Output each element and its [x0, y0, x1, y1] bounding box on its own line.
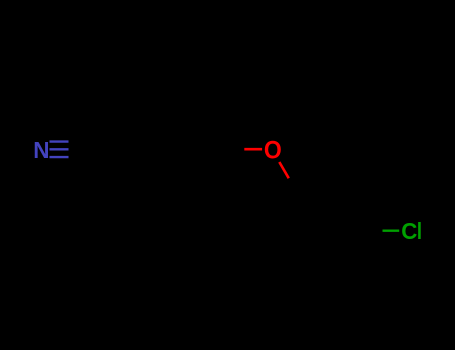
triple bond carbon-half (black, invisible) — [69, 142, 89, 158]
svg-text:O: O — [264, 137, 282, 165]
O to CH2 bond, oxygen half (red diagonal) — [279, 162, 289, 178]
nitrile carbon to ring bond (black, invisible) — [88, 148, 127, 151]
ring-to-O bond, oxygen half (red) — [244, 148, 262, 151]
ring-to-O bond, carbon half (black, invisible) — [227, 148, 244, 151]
CH2 to Cl bond, chlorine half (green) — [383, 229, 400, 231]
CH2 to Cl bond, carbon half (black, invisible) — [366, 229, 383, 232]
svg-text:l: l — [417, 219, 422, 244]
triple bond N-half (blue) — [50, 142, 69, 158]
O to CH2 bond, carbon half (black, invisible) — [289, 178, 299, 194]
oxygen atom label O — [264, 137, 282, 165]
svg-text:C: C — [401, 217, 417, 244]
chlorine atom label l of Cl — [417, 219, 422, 244]
nitrogen atom label N — [33, 137, 49, 163]
benzene ring (black bonds, invisible on black background) — [127, 106, 227, 193]
CH2-CH2 chain bonds (black, invisible) — [298, 195, 366, 231]
svg-text:N: N — [33, 137, 49, 163]
chlorine atom label C of Cl — [401, 217, 417, 244]
